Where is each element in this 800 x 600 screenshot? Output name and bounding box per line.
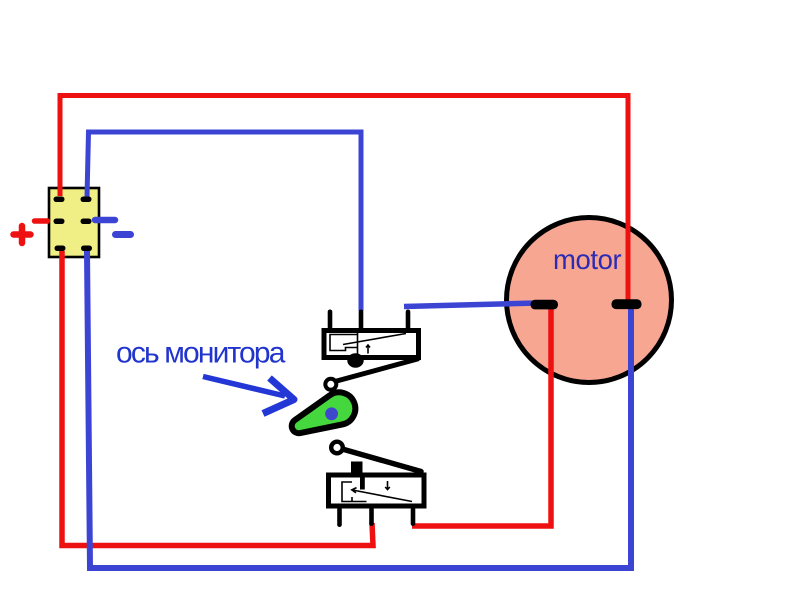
switch S1 body [324, 331, 419, 358]
arrow to cam: head [263, 378, 294, 414]
connector pin 2 [81, 197, 92, 203]
motor M1 body [507, 218, 672, 383]
connector pin 5 [55, 246, 66, 252]
switch S2 internal contacts [342, 481, 412, 502]
plus label [14, 226, 31, 243]
cam (monitor axis) [292, 392, 356, 433]
switch S2 pin 2 [369, 507, 374, 526]
switch S1 pin 3 [406, 310, 411, 330]
switch S2 body [329, 475, 425, 506]
wire red lower switch middle pin to battery+ bottom [62, 251, 373, 546]
wire blue battery- to upper switch middle pin [87, 132, 361, 311]
switch S1 pin 2 [359, 310, 364, 330]
switch S1 button [347, 353, 363, 367]
switch S1 internal contacts [330, 333, 406, 355]
svg-text:ось монитора: ось монитора [116, 337, 286, 370]
arrow to cam: shaft [203, 377, 285, 397]
switch S2 lever [344, 450, 421, 472]
switch S2 button stem [360, 473, 365, 490]
wire red motor left terminal to lower switch right pin [412, 308, 551, 526]
switch S2 button [351, 462, 363, 475]
connector pin 1 [54, 197, 65, 203]
svg-text:motor: motor [553, 244, 622, 275]
switch S1 roller [325, 379, 336, 390]
connector pin 3 [54, 219, 65, 225]
switch S2 pin 1 [337, 507, 342, 527]
switch S1 pin 1 [328, 310, 333, 330]
motor terminal left [531, 300, 559, 310]
switch S2 roller [331, 442, 343, 454]
minus label [116, 231, 131, 238]
cam axis blue dot [325, 407, 338, 420]
connector X1 body [49, 188, 99, 257]
switch S1 lever [333, 359, 418, 382]
wire blue motor right terminal to battery- bottom [87, 251, 631, 568]
motor terminal right [612, 299, 642, 309]
blue stub at pin 4 [95, 217, 115, 224]
red stub at pin 3 [35, 218, 48, 224]
switch S2 pin 3 [411, 507, 416, 526]
connector pin 6 [81, 246, 92, 252]
wire blue upper switch right pin to motor left terminal [404, 303, 537, 307]
wire red battery+ to motor right terminal [60, 96, 628, 304]
connector pin 4 [81, 219, 92, 225]
